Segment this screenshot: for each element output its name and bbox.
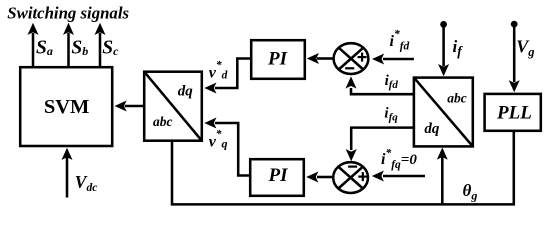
svg-text:if: if: [453, 37, 464, 59]
block PLL: [485, 94, 541, 131]
wire Sc arrow up from SVM: [95, 23, 106, 67]
svg-text:PLL: PLL: [496, 102, 532, 123]
svg-text:abc: abc: [447, 90, 467, 105]
svg-text:PI: PI: [267, 49, 288, 70]
wire theta_g branch up into abc/dq block: [437, 148, 448, 205]
svg-text:dq: dq: [178, 83, 194, 99]
svg-text:i*fd: i*fd: [390, 29, 410, 53]
svg-text:Vg: Vg: [516, 37, 534, 60]
svg-text:PI: PI: [268, 165, 289, 186]
block dq-to-abc transform: [144, 72, 202, 141]
block abc-to-dq transform: [414, 78, 473, 147]
svg-text:abc: abc: [153, 114, 173, 129]
wire sum lower output into PI lower: [306, 172, 332, 183]
svg-text:Vdc: Vdc: [75, 172, 98, 194]
wire v*d from PI upper to dq block: [204, 59, 251, 94]
svg-text:v*d: v*d: [209, 60, 228, 82]
wire if arrow down into abc/dq block: [438, 24, 449, 76]
block PI upper: [251, 40, 305, 79]
node if tap dot: [440, 21, 447, 28]
wire i*fq=0 reference input: [372, 171, 425, 182]
svg-text:v*q: v*q: [209, 129, 228, 151]
svg-text:dq: dq: [424, 121, 440, 137]
svg-text:Sb: Sb: [71, 38, 88, 59]
svg-text:Sc: Sc: [102, 38, 119, 59]
svg-text:i*fq=0: i*fq=0: [381, 148, 417, 172]
svg-text:Switching signals: Switching signals: [7, 3, 129, 22]
wire Vdc arrow up into SVM bottom: [62, 148, 73, 198]
svg-text:θg: θg: [463, 181, 478, 203]
block PI lower: [250, 159, 304, 196]
wire sum upper output into PI upper: [307, 53, 333, 64]
summing junction lower: [333, 162, 368, 193]
wire v*q from PI lower to abc block: [204, 118, 250, 176]
svg-text:Sa: Sa: [36, 38, 53, 59]
wire dq/abc output arrow into SVM right: [115, 101, 144, 112]
wire Sb arrow up from SVM: [63, 23, 74, 67]
svg-text:ifq: ifq: [384, 106, 398, 124]
wire Sa arrow up from SVM: [28, 23, 39, 67]
wire ifq feedback from abc/dq block to sum lower: [346, 128, 414, 162]
wire ifd feedback from abc/dq block to sum upper: [346, 76, 414, 94]
block SVM: [20, 67, 112, 146]
wire Vg arrow down into PLL: [509, 24, 520, 92]
wire i*fd reference input: [372, 54, 414, 65]
node Vg tap dot: [511, 21, 518, 28]
summing junction upper: [334, 43, 369, 74]
svg-text:SVM: SVM: [44, 96, 90, 118]
wire theta_g from PLL bottom along bottom to dq/abc block: [172, 130, 514, 204]
svg-text:ifd: ifd: [385, 73, 399, 91]
